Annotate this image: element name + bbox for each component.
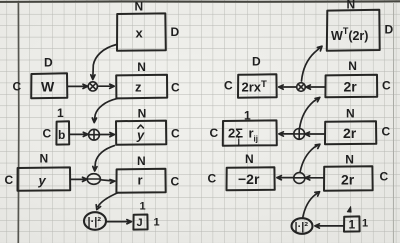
node mul right	[297, 83, 306, 92]
svg-text:C: C	[13, 80, 22, 94]
wire norm to J	[107, 220, 132, 224]
wire yhat to minus	[93, 146, 115, 171]
box 2r row2	[325, 75, 377, 98]
svg-text:D: D	[385, 23, 394, 37]
svg-text:1: 1	[349, 218, 356, 232]
svg-text:J: J	[137, 217, 143, 229]
box 2r row3	[325, 121, 376, 144]
svg-text:C: C	[43, 127, 52, 141]
box W	[31, 73, 67, 98]
box neg2r	[227, 167, 275, 190]
svg-text:r: r	[138, 173, 143, 188]
wire mulR to 2rxT	[279, 85, 297, 89]
wire minusR to neg2r	[277, 176, 294, 180]
svg-text:N: N	[347, 0, 356, 12]
wire plusR to sum	[279, 132, 294, 136]
svg-text:1: 1	[362, 218, 368, 230]
box r	[116, 169, 165, 193]
svg-text:1: 1	[244, 109, 251, 123]
node mul left	[88, 82, 97, 91]
svg-text:ij: ij	[254, 135, 258, 144]
svg-text:2r: 2r	[341, 172, 355, 188]
box one	[344, 216, 360, 231]
svg-text:D: D	[171, 25, 180, 39]
svg-text:j: j	[237, 136, 241, 146]
svg-text:N: N	[137, 154, 146, 168]
svg-text:C: C	[382, 79, 391, 93]
svg-text:C: C	[171, 175, 180, 189]
svg-text:|·|²: |·|²	[88, 216, 102, 228]
svg-text:C: C	[380, 170, 389, 184]
tick above one box	[347, 207, 351, 213]
svg-text:−2r: −2r	[238, 171, 260, 187]
box 2rxT	[238, 74, 277, 97]
svg-text:D: D	[252, 55, 261, 69]
svg-text:C: C	[5, 173, 14, 187]
box WT2r	[327, 10, 380, 51]
svg-text:C: C	[171, 127, 180, 141]
node plus left	[89, 129, 100, 140]
svg-text:1: 1	[154, 217, 160, 229]
wire one to normR	[315, 224, 344, 228]
box b	[56, 121, 69, 144]
svg-text:N: N	[138, 107, 147, 121]
svg-text:2r: 2r	[343, 125, 357, 141]
svg-text:x: x	[136, 26, 144, 41]
wire W to mul	[68, 84, 88, 88]
node minus right	[294, 173, 305, 184]
box y	[18, 167, 71, 190]
node minus left	[87, 174, 100, 185]
wire minus to r	[101, 180, 115, 184]
wire z to plus	[92, 99, 117, 123]
svg-text:C: C	[210, 126, 219, 140]
node plus right	[294, 129, 305, 140]
wire r to norm	[96, 193, 118, 210]
box yhat	[116, 121, 166, 145]
box 2r row4	[324, 166, 373, 191]
wire b to plus	[70, 132, 88, 136]
node norm left	[84, 212, 106, 230]
wire mulR to WT2r	[302, 46, 323, 81]
svg-text:N: N	[137, 60, 146, 74]
box x	[117, 13, 166, 50]
wire minusR to 2rB	[300, 144, 320, 172]
wire x to mul	[91, 45, 117, 80]
svg-text:N: N	[40, 152, 49, 166]
svg-text:C: C	[382, 125, 391, 139]
svg-text:N: N	[245, 152, 254, 166]
top page edge line	[0, 0, 400, 3]
left margin line	[17, 2, 20, 243]
wire 2rC to minusR	[305, 176, 324, 180]
wire mul to z	[98, 84, 114, 88]
svg-text:WT(2r): WT(2r)	[331, 26, 368, 43]
wire normR to 2rC	[303, 192, 320, 219]
svg-text:W: W	[41, 79, 55, 95]
svg-text:|·|²: |·|²	[295, 221, 309, 233]
wire 2rA to mulR	[306, 85, 325, 89]
svg-text:1: 1	[57, 106, 64, 120]
wire 2rB to plusR	[305, 132, 325, 136]
svg-text:2r: 2r	[344, 79, 358, 95]
svg-text:z: z	[135, 80, 142, 95]
svg-text:N: N	[345, 153, 354, 167]
wire plusR to 2rA	[300, 97, 320, 128]
box z	[116, 75, 167, 99]
darker grid line near right edge	[392, 2, 394, 243]
svg-text:N: N	[348, 59, 357, 73]
svg-text:C: C	[224, 79, 233, 93]
svg-text:C: C	[208, 172, 217, 186]
svg-text:b: b	[58, 128, 65, 142]
svg-text:y: y	[38, 173, 47, 188]
node norm right	[292, 218, 313, 234]
svg-text:C: C	[171, 81, 180, 95]
box sum	[223, 120, 277, 145]
svg-text:N: N	[346, 107, 355, 121]
wire y to minus	[71, 177, 87, 181]
box J	[133, 215, 147, 230]
svg-text:N: N	[135, 0, 144, 14]
wire plus to yhat	[100, 133, 115, 137]
svg-text:y: y	[136, 128, 145, 143]
svg-text:1: 1	[140, 201, 146, 213]
svg-text:D: D	[44, 56, 53, 70]
svg-text:2Σ: 2Σ	[228, 126, 243, 141]
